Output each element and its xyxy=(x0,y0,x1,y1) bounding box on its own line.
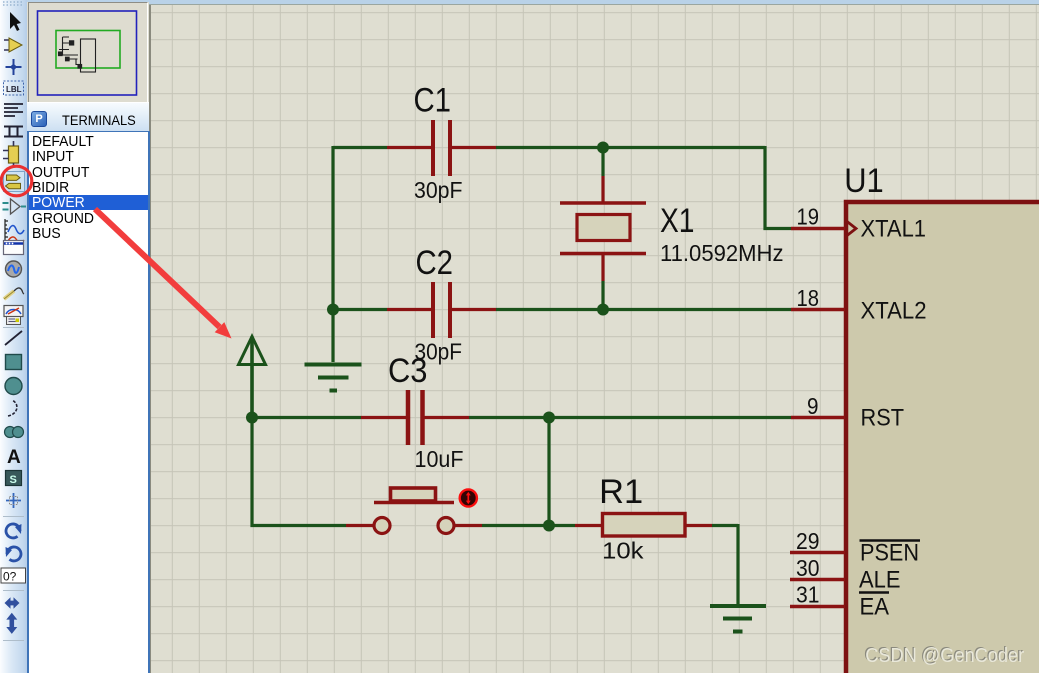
device pin tool xyxy=(3,203,9,210)
crystal X1 body xyxy=(577,215,630,241)
IC U1 (8051) body xyxy=(846,202,1039,673)
button left contact xyxy=(374,518,390,534)
text script tool xyxy=(4,104,23,116)
bus tool xyxy=(4,127,23,137)
v-mirror xyxy=(6,613,17,634)
resistor R1 body xyxy=(603,514,686,537)
crystal X1 top electrode xyxy=(560,201,646,205)
top light blue strip xyxy=(149,0,1039,5)
svg-text:A: A xyxy=(7,447,21,468)
mini schematic thumbnail xyxy=(59,37,96,72)
ground symbol left xyxy=(305,365,362,391)
wire middle vertical xyxy=(547,418,550,526)
rotate ccw xyxy=(7,547,21,561)
wire top row left green xyxy=(333,146,387,149)
pin 29 lead xyxy=(790,551,845,555)
pin 18 lead xyxy=(791,308,845,312)
angle edit box xyxy=(1,568,26,583)
svg-text:0?: 0? xyxy=(3,570,17,584)
ground symbol right xyxy=(710,606,766,632)
button right contact xyxy=(438,518,454,534)
wire R1 to ground xyxy=(712,524,738,604)
separator xyxy=(3,640,24,642)
capacitor C1 plates xyxy=(433,120,450,176)
pin 31 lead xyxy=(790,605,845,609)
capacitor C3 pin left xyxy=(361,416,406,419)
overview viewport (green) xyxy=(56,31,120,69)
grip xyxy=(3,2,24,5)
wire top row right green xyxy=(496,146,765,149)
pin 9 lead xyxy=(791,416,845,420)
2d path tool xyxy=(5,427,16,438)
junction tool xyxy=(6,59,22,75)
capacitor C1 pin left xyxy=(387,146,431,149)
node X1 bottom junction xyxy=(597,304,609,316)
overview sheet border (blue) xyxy=(38,11,137,95)
wire X1 top stem xyxy=(601,148,604,177)
current probe tool xyxy=(4,306,23,317)
capacitor C2 plates xyxy=(433,282,450,338)
rotate cw xyxy=(6,524,20,538)
wire RST row right green xyxy=(469,416,791,419)
voltage probe tool xyxy=(4,291,14,299)
tape recorder tool xyxy=(4,241,24,255)
button right pin xyxy=(455,524,482,527)
crystal X1 top pin xyxy=(601,176,604,203)
capacitor C3 plates xyxy=(408,390,423,445)
button interactive marker xyxy=(460,489,477,506)
wire XTAL2 row right green xyxy=(496,308,791,311)
wire left vertical xyxy=(331,146,334,311)
wire button row right green xyxy=(482,524,575,527)
2d line tool xyxy=(5,331,22,345)
button left pin xyxy=(346,524,373,527)
clock symbol on XTAL1 xyxy=(847,222,856,236)
node RST row left junction xyxy=(246,412,258,424)
wire left vertical to button row xyxy=(252,418,346,526)
generator tool xyxy=(6,261,22,277)
2d symbol tool xyxy=(6,471,22,486)
pin 30 lead xyxy=(790,578,845,582)
wire label tool xyxy=(4,81,24,95)
annotation: red arrow to power terminal xyxy=(95,209,220,327)
2d arc tool xyxy=(8,400,17,416)
node button/R1 junction xyxy=(543,520,555,532)
2d box tool xyxy=(6,355,22,370)
node RST/R1 junction xyxy=(543,412,555,424)
left toolbar xyxy=(0,0,27,673)
pin 19 lead xyxy=(791,227,845,231)
button cap xyxy=(391,488,436,501)
node X1 top junction xyxy=(597,142,609,154)
annotation: red ellipse around terminals tool xyxy=(1,166,32,196)
wire ground stub xyxy=(331,310,334,363)
crystal X1 bottom electrode xyxy=(560,252,646,256)
capacitor C1 pin right xyxy=(452,146,496,149)
power terminal arrow xyxy=(239,337,266,365)
cursor tool xyxy=(10,12,21,31)
graph tool xyxy=(5,219,8,243)
separator xyxy=(3,327,24,329)
separator xyxy=(3,516,24,518)
resistor R1 pin left xyxy=(575,524,602,527)
svg-text:S: S xyxy=(10,474,17,486)
2d circle tool xyxy=(5,378,22,395)
wire power terminal stem xyxy=(250,337,254,418)
svg-text:LBL: LBL xyxy=(6,85,22,94)
h-mirror xyxy=(5,597,20,608)
capacitor C2 pin right xyxy=(452,308,496,311)
terminals tool (selected) xyxy=(4,172,25,192)
crystal X1 bottom pin xyxy=(601,254,604,281)
component tool xyxy=(4,40,9,50)
wire RST row left green xyxy=(252,416,361,419)
wire right vertical to pin 19 xyxy=(765,146,791,229)
separator xyxy=(3,590,24,592)
middle column: overview + terminals header + list xyxy=(27,0,149,673)
wire XTAL2 row left green xyxy=(333,308,387,311)
button actuator bar xyxy=(374,501,454,505)
resistor R1 pin right xyxy=(685,524,712,527)
subcircuit tool xyxy=(9,146,19,163)
capacitor C2 pin left xyxy=(387,308,431,311)
marker tool xyxy=(6,493,21,508)
node left vertical / XTAL2 row junction xyxy=(327,304,339,316)
capacitor C3 pin right xyxy=(425,416,470,419)
wire X1 bottom stem xyxy=(601,281,604,310)
